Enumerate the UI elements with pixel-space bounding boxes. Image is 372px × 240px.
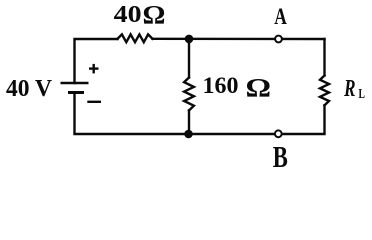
battery plus sign	[89, 64, 99, 74]
resistor RL zigzag	[320, 76, 329, 106]
svg-text:A: A	[274, 5, 287, 30]
wire right-bottom segment	[75, 93, 325, 135]
wire top-left segment	[75, 39, 118, 83]
battery minus sign	[87, 101, 101, 103]
svg-text:40 V: 40 V	[6, 76, 52, 102]
label RL load resistor	[343, 74, 365, 102]
wire middle branch bottom	[188, 110, 190, 134]
svg-text:Ω: Ω	[246, 74, 272, 103]
battery V1 long plate (+)	[61, 82, 89, 84]
svg-text:B: B	[273, 140, 288, 174]
wire middle branch top	[188, 39, 190, 78]
wire right segment down to RL	[323, 39, 325, 76]
resistor R1 40Ω zigzag	[118, 34, 153, 42]
svg-text:40: 40	[114, 1, 142, 28]
resistor R2 160Ω zigzag	[184, 78, 194, 111]
battery V1 short plate (−)	[68, 91, 84, 94]
terminal B (open circle)	[275, 130, 282, 137]
node junction top (dot)	[185, 35, 194, 44]
svg-text:L: L	[359, 86, 366, 102]
terminal A (open circle)	[275, 36, 282, 43]
svg-text:R: R	[343, 74, 355, 102]
svg-text:160: 160	[203, 73, 239, 99]
node junction bottom (dot)	[184, 130, 193, 139]
wire top-middle segment	[153, 38, 325, 41]
svg-text:Ω: Ω	[143, 1, 166, 30]
